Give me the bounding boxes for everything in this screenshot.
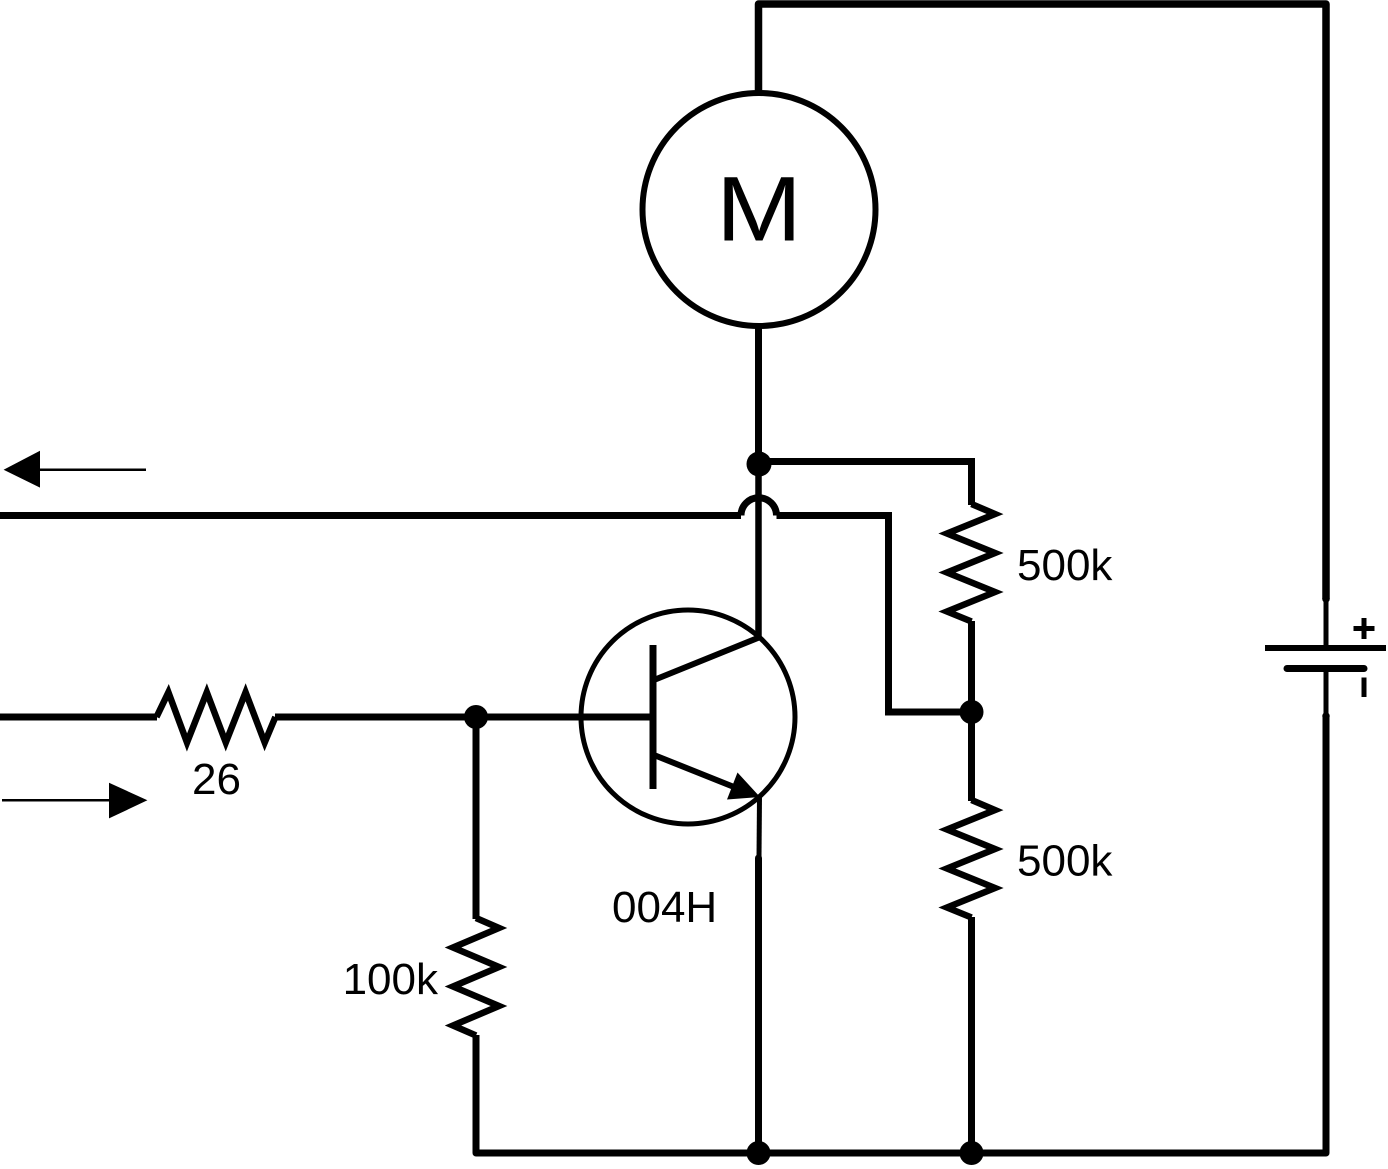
transistor Q1 004H: [581, 610, 795, 824]
wire from node B to resistor R2 top: [968, 712, 975, 801]
svg-text:100k: 100k: [343, 955, 439, 1004]
svg-text:500k: 500k: [1017, 837, 1113, 886]
wire bottom rail from R4 to battery negative: [476, 712, 1330, 1153]
node C (junction dot 500k / bottom rail): [960, 1141, 984, 1165]
svg-text:26: 26: [192, 755, 241, 804]
battery minus label: [1362, 678, 1367, 698]
wire input left segment: [0, 714, 157, 721]
wire from R2 bottom to bottom rail: [968, 917, 975, 1153]
wire horizontal left segment at y=517: [0, 512, 741, 519]
svg-text:004H: 004H: [612, 883, 717, 932]
wire hop over collector wire: [741, 498, 777, 516]
resistor R4 100k: [453, 918, 499, 1036]
svg-text:500k: 500k: [1017, 541, 1113, 590]
svg-text:M: M: [716, 159, 802, 261]
arrow annotation pointing left (output current): [4, 451, 146, 488]
arrow annotation pointing right (input current): [2, 783, 147, 819]
wire from node A to resistor R1 top: [759, 462, 972, 506]
battery B1: [1265, 599, 1386, 716]
wire from R1 bottom to node B: [968, 621, 975, 712]
wire from hop to node B (to base divider mid): [777, 516, 963, 713]
wire from motor bottom to node A: [755, 326, 762, 464]
resistor R1 500k (upper): [947, 504, 995, 622]
wire emitter to bottom rail: [755, 855, 762, 1154]
resistor R2 500k (lower): [947, 800, 995, 918]
node E (junction dot emitter / bottom rail): [747, 1141, 771, 1165]
motor M1: [643, 93, 876, 326]
node A (junction dot, motor / collector / divider top): [747, 452, 772, 477]
node D (junction dot at base / 100k): [464, 705, 488, 729]
wire collector vertical from node A to transistor: [755, 464, 762, 638]
wire base input at y=717: [275, 714, 650, 721]
node B (junction dot between 500k resistors): [960, 700, 984, 724]
wire emitter lead (thin): [757, 796, 763, 858]
wire from motor top to battery positive (top rail and right rail): [759, 4, 1330, 603]
battery plus label: [1354, 618, 1375, 639]
wire from node D down to resistor R4: [473, 717, 480, 919]
resistor R3 26 (base series): [157, 692, 276, 742]
